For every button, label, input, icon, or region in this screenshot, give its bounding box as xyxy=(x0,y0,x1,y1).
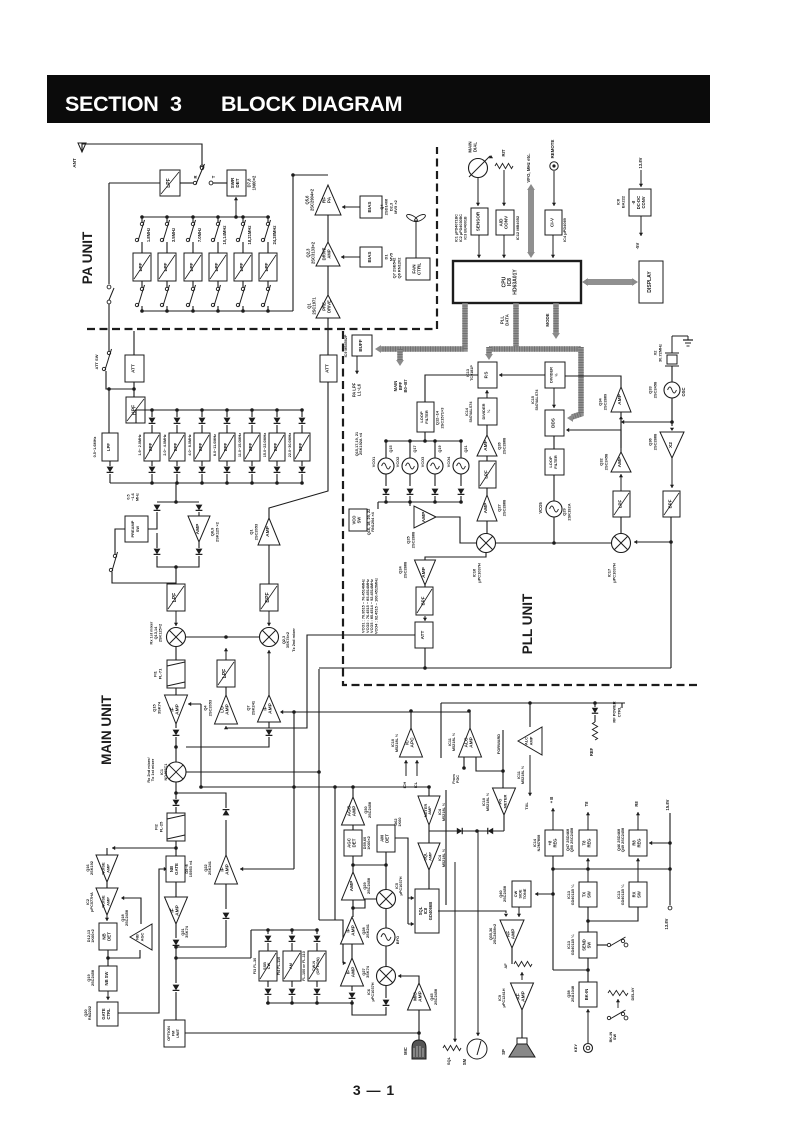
arrowhead x2 in xyxy=(670,428,674,431)
svg-text:DET: DET xyxy=(235,178,240,187)
Q29 if label xyxy=(363,877,371,894)
wire bus 787 xyxy=(201,786,429,788)
arrowhead sql in xyxy=(408,896,414,900)
wire q22 down xyxy=(225,884,227,909)
diode bpf low 2 xyxy=(174,467,181,473)
filter LPF band 1 xyxy=(133,253,151,281)
svg-text:DET: DET xyxy=(352,838,357,847)
Q16-22 label xyxy=(367,509,375,536)
svg-text:LPF: LPF xyxy=(163,262,168,271)
wire to rx lpf xyxy=(175,567,177,584)
node 588 921 xyxy=(586,919,590,923)
svg-text:2SC2868: 2SC2868 xyxy=(652,433,657,450)
wire bpf col 7 d xyxy=(301,474,303,483)
node swr bus xyxy=(234,215,238,219)
Q19 label xyxy=(87,969,95,986)
arrowhead nbagc xyxy=(121,896,124,900)
amplifier DRIVE AMP Q2 Q3 xyxy=(316,242,340,266)
diode q7 out xyxy=(266,730,273,736)
wire pa col 2 low xyxy=(166,281,168,288)
node 429 787 xyxy=(427,785,431,789)
svg-text:SW: SW xyxy=(356,517,361,524)
svg-text:AF: AF xyxy=(505,931,511,937)
wire fbank 3 b xyxy=(316,943,318,951)
NB GATE xyxy=(166,856,185,882)
svg-text:M5218L ½: M5218L ½ xyxy=(452,732,456,751)
svg-text:TC9181P: TC9181P xyxy=(470,365,474,381)
svg-text:VFO, MHz etc.: VFO, MHz etc. xyxy=(526,153,531,182)
node bpf low 4 xyxy=(225,481,229,485)
BIAS upper xyxy=(360,196,382,218)
resistor REF xyxy=(592,722,597,740)
svg-text:AMP: AMP xyxy=(225,863,231,875)
svg-text:2SC3133×2: 2SC3133×2 xyxy=(310,241,315,264)
wire agcamp up xyxy=(352,787,354,797)
svg-text:IC10: IC10 xyxy=(391,739,395,747)
svg-text:AMP: AMP xyxy=(511,928,517,940)
SQL IC8 GD4066B xyxy=(415,889,439,933)
wire IC1 lo feed xyxy=(186,771,319,773)
svg-text:BPF: BPF xyxy=(173,442,178,451)
T/R switch R xyxy=(193,164,204,185)
svg-text:BPF: BPF xyxy=(668,499,673,508)
svg-text:μPC1037H: μPC1037H xyxy=(476,563,481,583)
wire 831 link xyxy=(429,830,504,832)
R8 label xyxy=(634,801,639,807)
mic symbol MIC xyxy=(412,1040,426,1059)
wire bpf col 3 d xyxy=(201,474,203,483)
svg-text:IC9: IC9 xyxy=(498,995,502,1001)
svg-text:+ B: + B xyxy=(549,797,554,804)
wire left riser 2 xyxy=(106,371,109,389)
wire q34 feed xyxy=(621,420,672,424)
node from pdc xyxy=(462,766,466,770)
node 477 831 xyxy=(475,829,479,833)
wire pa col 3 low xyxy=(192,281,194,288)
filter FI3 FL-30 xyxy=(259,951,277,981)
IC5 label xyxy=(395,876,403,895)
wire pa col 6 bottom xyxy=(267,306,269,311)
svg-text:FL-25: FL-25 xyxy=(158,821,163,832)
diode q22 low xyxy=(223,913,230,919)
wire send sw out xyxy=(597,944,607,946)
svg-text:2SK241: 2SK241 xyxy=(250,700,255,715)
oscillator VCO1 xyxy=(378,458,394,474)
node pa bottom bus 6 xyxy=(266,309,270,313)
wire q1 bpf xyxy=(268,545,270,584)
wire bpf col 7 c xyxy=(301,461,303,466)
label 1.8MHz xyxy=(146,228,151,242)
svg-text:IC1: IC1 xyxy=(160,768,164,775)
wire gate out xyxy=(118,869,165,1013)
wire ICH xyxy=(404,760,408,776)
svg-text:PA: PA xyxy=(327,196,333,203)
filter BPF tx xyxy=(260,584,278,611)
wire preamp L xyxy=(148,512,157,529)
wire 15.8 line xyxy=(669,813,671,905)
wire dial to sensor xyxy=(476,178,480,206)
page number xyxy=(353,1082,395,1098)
filter BPF 11.0~15.0MHz xyxy=(244,433,260,461)
wire q27 tail xyxy=(351,986,353,991)
svg-text:SW: SW xyxy=(613,1034,617,1041)
bus CPU-DISPLAY xyxy=(582,278,638,286)
wire lpf05 drop xyxy=(108,389,110,433)
potentiometer AF xyxy=(514,961,532,966)
switch band 10,14MHz xyxy=(211,220,220,242)
wire q25 out xyxy=(436,517,477,543)
svg-text:2SC2458: 2SC2458 xyxy=(367,877,371,894)
svg-text:GD4066B: GD4066B xyxy=(428,902,433,920)
mixer IC6 xyxy=(377,967,396,986)
wire alc in L xyxy=(463,757,465,768)
diode lpf05 xyxy=(107,467,114,473)
ATT tx xyxy=(320,355,337,382)
multiplier X2 Q36 xyxy=(660,432,684,458)
svg-text:2SC2458: 2SC2458 xyxy=(603,453,608,470)
svg-text:OPTION: OPTION xyxy=(167,1026,171,1041)
svg-text:RN2202: RN2202 xyxy=(88,1006,92,1020)
wire LPF left xyxy=(109,182,160,184)
amplifier AF AMP IC9 xyxy=(511,983,534,1010)
bus main bpf branch xyxy=(397,349,403,361)
oscillator VCO2 xyxy=(402,458,418,474)
svg-text:TONE: TONE xyxy=(523,888,527,899)
svg-text:SIDE: SIDE xyxy=(519,889,523,898)
svg-text:AMP: AMP xyxy=(418,990,424,1002)
Q20 label xyxy=(84,1006,92,1020)
svg-text:DET: DET xyxy=(107,932,112,941)
svg-text:FORWARD: FORWARD xyxy=(496,734,501,754)
svg-text:AMP: AMP xyxy=(469,736,475,748)
svg-text:VCO2: VCO2 xyxy=(396,457,400,467)
R label xyxy=(193,175,198,178)
Q4 bias label xyxy=(379,198,398,215)
diode fbank top 2 xyxy=(289,936,296,942)
svg-text:0.5~1.6MHz: 0.5~1.6MHz xyxy=(93,437,97,458)
wire meteramp up xyxy=(428,787,430,796)
wire rx feed xyxy=(588,907,638,921)
label 1.6~ 2.0MHz xyxy=(138,434,142,455)
wire txsw up xyxy=(586,858,590,882)
SQL pot label xyxy=(446,1056,451,1065)
label 8.0~11.0MHz xyxy=(213,434,217,456)
label 22.0~30.0MHz xyxy=(288,433,292,458)
amplifier ALC AMP 2 xyxy=(518,727,542,755)
From PDC label xyxy=(452,774,460,784)
svg-text:SW: SW xyxy=(636,891,641,898)
amplifier Q25 xyxy=(414,506,436,528)
bus VFO data xyxy=(527,184,535,258)
D59 60 label xyxy=(363,836,371,850)
svg-text:IC2: IC2 xyxy=(86,899,90,905)
wire bpf col 1 b xyxy=(151,425,153,433)
IC4 meter label xyxy=(438,802,446,821)
BUFF IC9 xyxy=(352,335,372,356)
svg-text:IC12 MB4052: IC12 MB4052 xyxy=(515,215,520,240)
wire 13.8 to dcdc xyxy=(639,170,643,187)
wire vco 1 down xyxy=(385,474,387,486)
wire 869 bus xyxy=(553,868,670,870)
wire riser 553 xyxy=(552,856,554,970)
AM DET xyxy=(377,825,395,852)
node fbank top 2 xyxy=(290,928,294,932)
node riser sw b xyxy=(107,300,111,304)
wire loop2 to vco5 xyxy=(553,475,555,501)
IC4 label xyxy=(562,217,567,242)
wire r8 out xyxy=(636,812,640,830)
wire remote to civ xyxy=(552,171,556,206)
wire fbank 2 b xyxy=(291,943,293,951)
wire fbank 3 d xyxy=(316,996,318,1003)
resistor DELAY xyxy=(608,990,628,995)
VCO3 label xyxy=(421,457,425,467)
wire sp xyxy=(521,1010,523,1043)
amplifier LO AMP Q4 xyxy=(215,695,238,724)
IC9 label xyxy=(344,334,348,357)
node q21 a xyxy=(174,945,178,949)
wire 703 end xyxy=(621,703,623,708)
filter BPF 22.0~30.0MHz xyxy=(294,433,310,461)
Q12-14 label xyxy=(435,407,445,429)
amplifier IF AMP Q22 xyxy=(215,855,238,884)
IC1 label xyxy=(160,763,168,781)
svg-text:IC: IC xyxy=(404,740,410,745)
IC11 label xyxy=(448,732,456,751)
node 553 869 xyxy=(551,867,555,871)
svg-text:MIC: MIC xyxy=(412,992,418,1001)
svg-text:SECTION: SECTION xyxy=(65,92,158,116)
FI2 label xyxy=(154,821,164,832)
wire riser 319 xyxy=(318,669,320,920)
REMOTE jack xyxy=(550,162,558,170)
DELAY label xyxy=(630,987,635,1000)
wire q7 diode xyxy=(268,722,270,728)
wire q34 q32 xyxy=(620,412,622,452)
node 294 712 xyxy=(292,710,296,714)
meter SM xyxy=(467,1039,487,1059)
SP label xyxy=(501,1049,506,1055)
diode vco 2 xyxy=(407,489,414,495)
svg-text:IF: IF xyxy=(169,908,175,912)
svg-text:Q49 2SC2458: Q49 2SC2458 xyxy=(621,827,625,852)
wire ic5 up xyxy=(385,865,387,890)
Q15 label xyxy=(389,445,393,452)
PLL unit dashed boundary xyxy=(343,331,697,685)
svg-text:M5218L ½: M5218L ½ xyxy=(395,733,399,752)
svg-text:AMP: AMP xyxy=(421,566,427,578)
svg-text:ATT: ATT xyxy=(325,364,330,373)
svg-text:3SK74: 3SK74 xyxy=(156,701,161,714)
amplifier IF AMP Q15 xyxy=(165,695,188,724)
arrowhead lo amp xyxy=(224,726,230,729)
bus PLL DATA xyxy=(513,303,519,349)
svg-text:SW: SW xyxy=(135,526,140,533)
svg-text:2SC1971: 2SC1971 xyxy=(311,297,316,315)
diode q22 top xyxy=(223,810,230,816)
svg-text:D12,13: D12,13 xyxy=(87,930,91,942)
IC2 label xyxy=(86,892,94,912)
svg-text:IF: IF xyxy=(345,928,351,932)
CPU IC8 xyxy=(453,261,581,303)
DISPLAY xyxy=(639,261,663,303)
arrowhead q27 feed xyxy=(343,961,346,965)
wire lpf to mix1 xyxy=(174,611,178,626)
svg-text:METER: METER xyxy=(424,804,428,818)
node pa bus 6 xyxy=(266,215,270,219)
label 2.0~ 4.0MHz xyxy=(163,434,167,455)
Q7 Q6 label xyxy=(392,257,402,279)
svg-text:AMP: AMP xyxy=(351,924,357,936)
wire agc det link xyxy=(352,825,354,830)
node bpf low 5 xyxy=(250,481,254,485)
diode bpf low 6 xyxy=(274,467,281,473)
diode vco 3 xyxy=(432,489,439,495)
svg-text:CTRL: CTRL xyxy=(616,706,621,717)
switch band low 5 xyxy=(236,285,245,307)
wire pa col 1 low xyxy=(141,281,143,288)
diode bpf top 3 xyxy=(199,418,206,424)
wire preamp join xyxy=(157,556,199,567)
node 670 869 xyxy=(668,867,672,871)
svg-text:LPF: LPF xyxy=(484,470,489,479)
node att junction xyxy=(132,387,136,391)
svg-text:VCO3: VCO3 xyxy=(421,457,425,467)
IC12 label xyxy=(515,215,520,240)
PA UNIT label xyxy=(80,231,95,284)
switch send xyxy=(607,937,625,947)
svg-text:R8: R8 xyxy=(634,801,639,807)
diode 831 L xyxy=(457,828,462,834)
wire LPF to R xyxy=(180,182,193,184)
svg-text:Q20: Q20 xyxy=(84,1009,88,1016)
svg-text:FL-100 or FL-110: FL-100 or FL-110 xyxy=(302,951,306,981)
wire lpf05 tail2 xyxy=(109,474,111,483)
label 24,28MHz xyxy=(272,226,277,245)
wire pa col 4 upper xyxy=(217,217,219,222)
node osc junction xyxy=(670,420,674,424)
switch att sw xyxy=(102,349,111,371)
svg-text:4.0~ 8.0MHz: 4.0~ 8.0MHz xyxy=(188,434,192,455)
svg-text:AMP: AMP xyxy=(351,966,357,978)
svg-text:AMP: AMP xyxy=(265,525,271,537)
node bpf low 6 xyxy=(275,481,279,485)
amplifier IF AMP Q28 xyxy=(341,917,364,944)
Q29 label xyxy=(562,503,572,520)
wire preamp bypass xyxy=(115,529,125,554)
svg-text:IF: IF xyxy=(169,707,175,711)
svg-text:ALC: ALC xyxy=(463,737,469,747)
svg-text:MHz: MHz xyxy=(135,493,139,501)
svg-text:LPF: LPF xyxy=(264,262,269,271)
switch band 1.8MHz xyxy=(135,220,144,242)
node fbank low 2 xyxy=(290,1001,294,1005)
VCO5 label xyxy=(538,502,543,514)
svg-text:BPF: BPF xyxy=(248,442,253,451)
oscillator VCO3 xyxy=(427,458,443,474)
svg-text:AM: AM xyxy=(289,963,293,969)
node agc tap xyxy=(351,785,355,789)
wire fbank 3 c xyxy=(316,981,318,987)
diode preamp R xyxy=(196,505,203,511)
node bpf low 1 xyxy=(150,481,154,485)
filter FL-100 or FL-110 xyxy=(308,951,326,981)
wire bpf col 3 c xyxy=(201,461,203,466)
mixer IC17 xyxy=(612,534,631,553)
node 294 787 xyxy=(292,785,296,789)
IC4 sql label xyxy=(438,848,446,867)
svg-text:Q29: Q29 xyxy=(363,882,367,889)
svg-text:B0~B7: B0~B7 xyxy=(403,379,408,393)
svg-text:μPC577HA: μPC577HA xyxy=(90,892,94,912)
diode if xyxy=(173,730,180,736)
MAIN BPF label xyxy=(393,379,408,393)
svg-text:RIT: RIT xyxy=(501,149,506,156)
wire bpf col 7 b xyxy=(301,425,303,433)
CW SIDE TONE Q40 xyxy=(512,881,531,907)
wire pa col 5 bottom xyxy=(242,306,244,311)
diode preamp L xyxy=(154,505,161,511)
amplifier AF AMP Q35 36 xyxy=(500,920,524,948)
svg-text:Q38: Q38 xyxy=(567,990,571,998)
wire pa chain 3 xyxy=(327,318,329,355)
filter FI2 FL-25 xyxy=(167,813,185,841)
oscillator BFO xyxy=(377,928,395,946)
svg-text:2SC2458×2: 2SC2458×2 xyxy=(493,924,497,944)
svg-text:Q13,14: Q13,14 xyxy=(154,626,158,639)
wire pa col 1 mid xyxy=(141,242,143,253)
svg-text:M5218L ½: M5218L ½ xyxy=(486,792,490,811)
diode q21 xyxy=(173,940,180,946)
node bpf top 4 xyxy=(225,408,229,412)
amplifier Q26 xyxy=(477,435,497,456)
wire bpf col 4 d xyxy=(226,474,228,483)
svg-text:8.0~11.0MHz: 8.0~11.0MHz xyxy=(213,434,217,456)
svg-text:SM: SM xyxy=(462,1058,467,1065)
svg-text:BPF: BPF xyxy=(298,442,303,451)
wire fbank 2 a xyxy=(291,930,293,934)
svg-text:BK-IN: BK-IN xyxy=(584,989,589,1001)
wire pa col 4 bottom xyxy=(217,306,219,311)
TXL label xyxy=(524,802,529,810)
T8 REG xyxy=(579,830,597,856)
svg-text:LPF: LPF xyxy=(214,262,219,271)
IC10 po label xyxy=(482,792,490,811)
svg-text:1N60×2: 1N60×2 xyxy=(251,175,256,190)
KEY label xyxy=(573,1044,578,1052)
antenna ANT xyxy=(78,143,86,152)
Q40 label xyxy=(499,885,507,902)
svg-text:AMP: AMP xyxy=(268,702,274,714)
wire fbank 1 a xyxy=(267,930,269,934)
svg-text:Q27: Q27 xyxy=(362,968,366,975)
switch band 7.0MHz xyxy=(186,220,195,242)
wire ic6 down2 xyxy=(352,1003,386,1015)
node bpf top 5 xyxy=(250,408,254,412)
wire pa col 2 upper xyxy=(166,217,168,222)
svg-text:Q30: Q30 xyxy=(364,806,368,813)
diode bpf top 6 xyxy=(274,418,281,424)
svg-text:1K60: 1K60 xyxy=(398,817,402,826)
amplifier ALC AMP IC11 xyxy=(459,728,482,757)
diode bpf top 4 xyxy=(224,418,231,424)
Q7 label xyxy=(246,700,256,715)
Q33 label xyxy=(648,381,658,398)
node T contact xyxy=(209,181,213,185)
wire left riser b xyxy=(108,304,110,351)
wire loop1 to vco bus xyxy=(424,432,426,441)
node left 389 xyxy=(107,387,111,391)
